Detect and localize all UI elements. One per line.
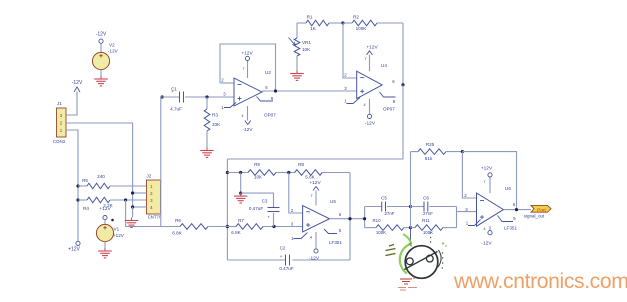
- wire R4-right node to lower rail: [126, 200, 161, 227]
- junction T-left: [363, 217, 366, 220]
- wire R10 to mid: [404, 227, 411, 229]
- U5 -12V power: [309, 232, 320, 261]
- svg-text:3: 3: [223, 92, 226, 97]
- svg-text:240: 240: [97, 174, 105, 179]
- wire bottom rail with C2: [227, 259, 350, 261]
- wire U2 output row to U4 pin3: [262, 90, 357, 92]
- svg-text:+: +: [171, 89, 174, 94]
- wire mid to R11: [411, 227, 416, 229]
- svg-text:+12V: +12V: [309, 180, 321, 186]
- doodle dotted: [430, 232, 431, 242]
- svg-text:1K: 1K: [310, 26, 317, 31]
- junction J2 pin2: [131, 191, 134, 194]
- svg-text:6.8K: 6.8K: [172, 231, 182, 236]
- svg-text:100K: 100K: [376, 230, 386, 235]
- svg-text:+12V: +12V: [366, 44, 378, 50]
- capacitor C3 0.47uF: [249, 199, 280, 227]
- svg-text:3: 3: [344, 86, 347, 91]
- svg-text:R1: R1: [307, 15, 313, 20]
- svg-text:R8: R8: [298, 162, 304, 167]
- wire T-left node vertical: [364, 207, 366, 228]
- wire V1 to ground: [104, 242, 106, 248]
- wire ground node to C3: [241, 193, 274, 207]
- op-amp U5 LF351: [291, 199, 343, 245]
- svg-text:4: 4: [241, 113, 244, 118]
- svg-text:R6: R6: [175, 218, 181, 223]
- junction U4 output: [401, 83, 404, 86]
- wire +12V flag to V1: [104, 220, 106, 225]
- power flag -12V above V2: [96, 32, 107, 53]
- resistor R11 100K: [415, 218, 443, 235]
- svg-text:4: 4: [363, 102, 366, 107]
- U5 pin5 stub: [324, 229, 337, 234]
- doodle slash: [403, 252, 438, 271]
- wire input node drop to lower rail: [160, 97, 162, 227]
- U4 pin1 stub: [347, 98, 361, 104]
- svg-text:0.47uF: 0.47uF: [249, 206, 263, 211]
- svg-text:U6: U6: [505, 186, 511, 191]
- svg-text:8: 8: [393, 99, 396, 104]
- svg-text:1: 1: [344, 99, 347, 104]
- wire J2 pin2 stub: [133, 192, 147, 194]
- U4 -12V power: [363, 99, 375, 127]
- junction C3 bottom at pin3 row: [272, 225, 275, 228]
- svg-text:+12V: +12V: [481, 166, 493, 172]
- svg-text:+: +: [280, 254, 283, 259]
- svg-text:7: 7: [364, 56, 367, 61]
- wire R1R2 junction to U4 pin2: [343, 23, 357, 78]
- svg-text:6: 6: [265, 85, 268, 90]
- U2 pin1 stub: [224, 103, 236, 108]
- U2 +12V power: [241, 51, 253, 79]
- svg-text:-12V: -12V: [481, 241, 492, 247]
- junction R9-R8: [287, 171, 290, 174]
- doodle red ground: [398, 276, 417, 290]
- svg-text:6: 6: [513, 202, 516, 207]
- doodle stub from T mid: [410, 228, 412, 243]
- doodle green arc: [400, 245, 409, 274]
- capacitor C2 0.47uF: [279, 246, 293, 271]
- wire T top row left: [365, 206, 382, 208]
- doodle small circle left: [406, 258, 413, 265]
- connector J2 CNT70: [147, 173, 162, 219]
- resistor R5 240: [78, 174, 147, 189]
- wire C5 to mid: [387, 206, 411, 208]
- svg-text:LF351: LF351: [504, 226, 517, 231]
- capacitor C6 27nF: [423, 196, 433, 216]
- svg-text:100K: 100K: [423, 230, 433, 235]
- junction R4 left: [76, 198, 79, 201]
- U4 +12V power: [364, 44, 378, 71]
- resistor R25 51k: [411, 142, 463, 161]
- svg-text:www.cntronics.com: www.cntronics.com: [453, 270, 627, 293]
- svg-text:V2: V2: [109, 43, 115, 48]
- doodle small circle right: [426, 255, 433, 262]
- junction C3 ground node: [239, 192, 242, 195]
- junction R25 right: [461, 150, 464, 153]
- junction R1-R2: [341, 21, 344, 24]
- svg-text:U5: U5: [330, 199, 336, 204]
- op-amp U2 OP07: [221, 70, 276, 118]
- wire J1 pin1 down-left rail: [66, 130, 78, 241]
- svg-text:7: 7: [483, 179, 486, 184]
- power flag -12V at J1 pin3: [72, 80, 83, 92]
- wire R1 left to VR1: [296, 23, 298, 38]
- wire T bottom row left: [365, 227, 376, 229]
- svg-text:27nF: 27nF: [384, 211, 394, 216]
- wire J2 pin4 to ground: [132, 207, 134, 218]
- junction T bottom middle: [409, 226, 412, 229]
- connector J1 CON3: [53, 101, 66, 144]
- wire V2 to ground: [100, 70, 102, 76]
- junction R3 top: [205, 95, 208, 98]
- svg-text:6: 6: [392, 79, 395, 84]
- svg-text:C3: C3: [262, 199, 268, 204]
- svg-text:LF351: LF351: [329, 240, 342, 245]
- wire R9-left branch down: [240, 173, 242, 194]
- svg-text:-12V: -12V: [242, 127, 253, 133]
- wire U2 feedback loop: [220, 44, 276, 91]
- svg-text:CNT70: CNT70: [148, 214, 162, 219]
- power flag +12V at V1: [99, 206, 111, 220]
- svg-text:5.6K: 5.6K: [305, 175, 315, 180]
- U2 -12V power: [241, 106, 253, 133]
- svg-text:C5: C5: [381, 196, 387, 201]
- svg-text:2: 2: [221, 78, 224, 83]
- resistor R9 10K: [227, 162, 288, 180]
- svg-text:4.7uF: 4.7uF: [170, 107, 182, 112]
- svg-text:-12V: -12V: [309, 255, 320, 261]
- wire U6 output to port: [504, 209, 532, 211]
- doodle right bracket: [438, 250, 443, 269]
- potentiometer VR1 10K: [289, 38, 312, 71]
- doodle green specks: [442, 242, 447, 247]
- ground below J2: [125, 218, 139, 228]
- doodle big circle: [405, 246, 438, 279]
- svg-text:-12V: -12V: [72, 80, 83, 86]
- svg-text:27nF: 27nF: [423, 211, 433, 216]
- svg-text:R25: R25: [426, 142, 435, 147]
- junction node-X at R6/R7 row: [226, 225, 229, 228]
- svg-text:V1: V1: [114, 227, 120, 232]
- svg-text:10K: 10K: [302, 47, 311, 52]
- wire R9R8 junction to U5 pin2: [289, 173, 303, 214]
- svg-text:R3: R3: [212, 113, 218, 118]
- svg-text:R10: R10: [372, 218, 381, 223]
- wire feedback rail to U6 output: [462, 152, 516, 210]
- svg-text:R7: R7: [238, 218, 244, 223]
- svg-text:10K: 10K: [254, 175, 263, 180]
- svg-text:OP07: OP07: [264, 113, 276, 118]
- wire C6 to T-right: [429, 206, 456, 208]
- wire T-right to U5 pin3... U6 pin3: [457, 211, 477, 213]
- svg-text:2: 2: [464, 193, 467, 198]
- svg-text:signal_out: signal_out: [524, 213, 545, 218]
- svg-text:R11: R11: [422, 218, 430, 223]
- junction R5 left: [76, 184, 79, 187]
- svg-text:6.8K: 6.8K: [231, 230, 241, 235]
- svg-text:R2: R2: [353, 15, 359, 20]
- svg-text:1: 1: [466, 221, 469, 226]
- svg-text:OP07: OP07: [383, 107, 395, 112]
- U6 -12V power: [481, 226, 492, 247]
- svg-text:R5: R5: [82, 178, 88, 183]
- wire left vertical node-X rail: [226, 159, 228, 260]
- svg-text:7: 7: [242, 66, 245, 71]
- wire mid to C6: [411, 206, 425, 208]
- svg-text:33K: 33K: [212, 122, 221, 127]
- U5 +12V power: [309, 180, 321, 206]
- resistor R8 5.6K: [289, 162, 350, 180]
- junction U2 output: [274, 89, 277, 92]
- svg-text:U2: U2: [265, 70, 271, 75]
- svg-text:+12V: +12V: [68, 246, 80, 252]
- resistor R4 2.2K: [78, 197, 147, 211]
- capacitor C1 4.7uF: [161, 87, 234, 112]
- port signal_out: [524, 205, 551, 218]
- op-amp U4 OP07: [344, 63, 396, 112]
- ground below V1: [98, 248, 112, 258]
- resistor R10 100K: [372, 218, 404, 235]
- U6 +12V power: [481, 166, 493, 194]
- svg-text:+12V: +12V: [241, 51, 253, 57]
- wire U5 output: [330, 218, 365, 220]
- svg-text:VR1: VR1: [302, 40, 311, 45]
- wire R25 node down to U6 pin2: [462, 152, 476, 198]
- svg-text:2: 2: [291, 208, 294, 213]
- wire T mid vertical: [410, 207, 412, 228]
- wire R11 to T-right: [443, 227, 457, 229]
- voltage source V2: [92, 43, 118, 70]
- svg-text:2: 2: [344, 73, 347, 78]
- doodle green arrow top: [403, 234, 412, 247]
- svg-text:0.47uF: 0.47uF: [279, 266, 293, 271]
- svg-text:3: 3: [291, 222, 294, 227]
- resistor R7 6.8K: [227, 218, 302, 235]
- svg-text:R9: R9: [254, 162, 260, 167]
- wire R2 right to U4 output (feedback): [402, 23, 404, 85]
- ground below VR1: [290, 71, 304, 81]
- voltage source V1: [96, 219, 124, 242]
- svg-text:J1: J1: [57, 101, 62, 106]
- svg-text:51k: 51k: [425, 156, 433, 161]
- ground below R3: [200, 148, 214, 158]
- wire R25 left drop to T mid: [410, 152, 412, 207]
- svg-text:4: 4: [483, 226, 486, 231]
- svg-text:+: +: [267, 215, 270, 220]
- resistor R1 1K: [297, 15, 343, 32]
- watermark www.cntronics.com: [453, 270, 627, 293]
- svg-text:CON3: CON3: [53, 139, 66, 144]
- wire U5 output vertical: [349, 173, 351, 261]
- ground below V2: [94, 76, 108, 86]
- wire J2 pin4 stub: [133, 206, 147, 208]
- svg-text:C2: C2: [280, 246, 286, 251]
- junction R4 right / J2 pin3: [124, 198, 127, 201]
- U6 pin1 stub: [468, 220, 481, 226]
- svg-text:-12V: -12V: [365, 121, 376, 127]
- junction C1 input node: [161, 95, 164, 98]
- wire J1 pin2 to J2 pin2/pin4: [66, 123, 133, 207]
- svg-text:+12V: +12V: [99, 206, 111, 212]
- op-amp U6 LF351: [464, 186, 517, 231]
- svg-text:R4: R4: [83, 206, 89, 211]
- junction J2 pin4: [131, 205, 134, 208]
- U4 pin8 stub: [380, 92, 396, 97]
- svg-text:6: 6: [339, 212, 342, 217]
- junction U5 output at vertical: [348, 217, 351, 220]
- junction T top middle: [409, 205, 412, 208]
- svg-text:5: 5: [339, 228, 342, 233]
- wire U4 output drop to top rail: [227, 85, 403, 159]
- svg-text:+12V: +12V: [113, 233, 125, 238]
- resistor R3 33K: [204, 97, 221, 148]
- wire T-right node vertical: [456, 207, 458, 228]
- doodle olive marks left: [386, 245, 396, 256]
- junction R9 left / C3 branch: [239, 171, 242, 174]
- junction node-X at R9 row: [226, 171, 229, 174]
- junction U6 output: [515, 208, 518, 211]
- svg-text:U4: U4: [381, 63, 387, 68]
- resistor R2 100K: [343, 15, 403, 32]
- svg-text:100K: 100K: [356, 26, 368, 31]
- resistor R6 6.8K: [161, 218, 228, 236]
- svg-text:-12V: -12V: [96, 32, 107, 38]
- svg-text:5: 5: [513, 216, 516, 221]
- svg-text:C6: C6: [423, 196, 429, 201]
- U2 pin8 stub: [257, 97, 274, 102]
- U5 pin1 stub: [294, 233, 308, 239]
- wire U2 pin2 stub: [220, 82, 234, 84]
- svg-text:7: 7: [310, 193, 313, 198]
- U6 pin5 stub: [498, 216, 514, 222]
- ground at C3 node: [234, 193, 248, 203]
- svg-text:-12V: -12V: [108, 49, 119, 54]
- capacitor C5 27nF: [381, 196, 395, 216]
- svg-text:8: 8: [271, 96, 274, 101]
- svg-text:1: 1: [221, 105, 224, 110]
- svg-text:4: 4: [310, 235, 313, 240]
- wire -12V flag to J1 pin 3: [66, 92, 77, 116]
- power flag +12V bottom left: [68, 241, 80, 252]
- svg-text:J2: J2: [147, 173, 152, 178]
